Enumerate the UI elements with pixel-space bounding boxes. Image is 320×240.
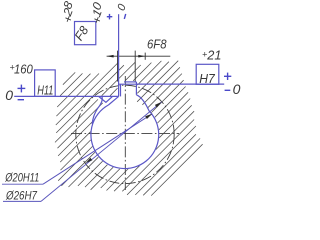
svg-text:0: 0 [5,87,13,103]
svg-text:Ø26H7: Ø26H7 [5,189,38,203]
svg-text:160: 160 [14,61,33,76]
svg-text:H7: H7 [199,71,215,86]
svg-text:6F8: 6F8 [147,37,167,52]
svg-text:0: 0 [233,81,241,97]
svg-text:21: 21 [206,48,221,63]
svg-text:H11: H11 [37,84,53,98]
svg-text:Ø20H11: Ø20H11 [5,170,40,184]
